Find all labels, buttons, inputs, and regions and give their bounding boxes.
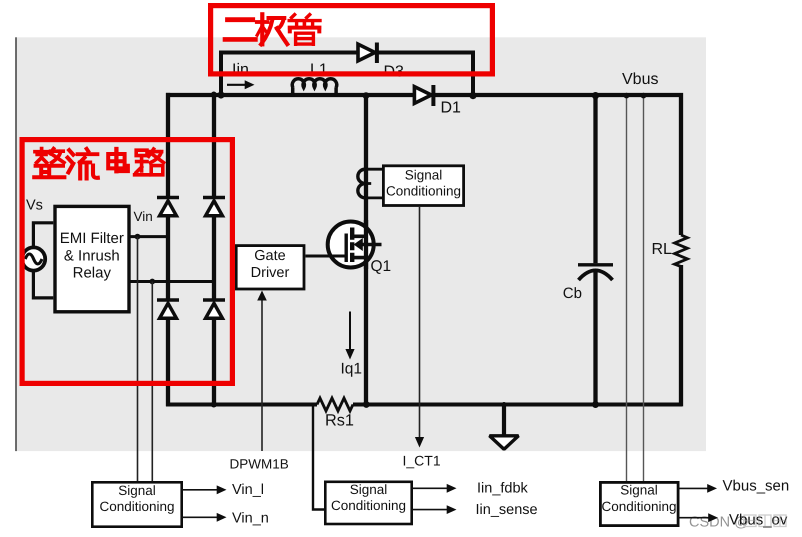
resistor RL: [675, 235, 688, 267]
wire: Cb branch upper: [593, 95, 597, 263]
svg-text:Driver: Driver: [251, 265, 290, 281]
wire: diode bypass riser and left run: [221, 53, 357, 97]
panel left edge line: [15, 37, 17, 451]
diode bridge D-bot-right: [203, 300, 225, 318]
svg-text:Conditioning: Conditioning: [331, 498, 406, 513]
wire: bridge column 1: [166, 93, 170, 406]
svg-text:Gate: Gate: [254, 248, 285, 264]
arrow Vbus_ov: [678, 512, 788, 529]
node: Cb bottom: [592, 401, 599, 408]
wire: Vbus sense line a: [626, 95, 628, 481]
wire: diode bypass right run down to rail: [377, 53, 473, 97]
signal conditioning box (CT): [383, 166, 463, 206]
svg-text:Rs1: Rs1: [325, 412, 354, 430]
wire: gate trace: [306, 255, 347, 258]
arrow Iin_fdbk: [412, 481, 529, 497]
node: Vin sense tap: [135, 234, 141, 240]
arrow Vbus_sen: [678, 478, 789, 495]
node: bridge leg2 bottom: [211, 402, 217, 408]
node: Vbus sense b top: [641, 93, 647, 99]
node: bypass return junction: [469, 92, 476, 99]
arrow Vin_n: [182, 510, 269, 526]
char 整: [34, 149, 64, 178]
diode bridge D-top-left: [157, 198, 179, 216]
wire: Vs source loop: [33, 223, 53, 298]
signal conditioning box (Vin): [92, 482, 181, 526]
svg-text:Iin_fdbk: Iin_fdbk: [477, 481, 529, 497]
arrow Iin_sense: [412, 502, 538, 518]
svg-text:Iq1: Iq1: [341, 361, 363, 378]
diode D3: [358, 43, 377, 64]
svg-text:Vin: Vin: [134, 209, 153, 224]
char 路: [135, 149, 164, 175]
svg-text:Vs: Vs: [26, 198, 43, 214]
wire: bottom rail right of Rs1: [353, 403, 682, 407]
diode D1: [414, 85, 433, 106]
annotation box: rectifier (left red): [22, 140, 232, 384]
node: Q1 branch bottom: [363, 401, 370, 408]
wire: Vbus sense line b: [643, 95, 645, 481]
svg-text:& Inrush: & Inrush: [64, 247, 120, 264]
node: neutral sense tap: [149, 279, 155, 285]
watermark CSDN: [689, 515, 786, 531]
node: ground junction: [502, 402, 507, 407]
gate driver box U2: [236, 246, 304, 289]
signal conditioning box (Iin): [325, 482, 411, 524]
arrow Iq1: [345, 312, 354, 360]
svg-text:Vin_l: Vin_l: [232, 482, 264, 498]
wire: Vin_n sense line down: [151, 282, 153, 482]
diode bridge D-top-right: [203, 198, 225, 216]
svg-text:EMI Filter: EMI Filter: [60, 230, 124, 247]
wire: top rail right segment with RL corner: [433, 95, 681, 235]
EMI filter box: [55, 206, 129, 311]
node: Q1 branch top: [363, 92, 370, 99]
inductor L1: [292, 79, 336, 97]
svg-text:CSDN @: CSDN @: [689, 515, 749, 531]
AC source Vs: [22, 247, 45, 270]
annotation text 整流电路: [34, 149, 163, 179]
svg-text:Conditioning: Conditioning: [386, 184, 461, 199]
current transformer winding: [358, 169, 384, 198]
wire: DPWM1B line with up arrow: [257, 291, 267, 452]
ground: [490, 405, 519, 450]
wire: Rs1 sense L to conditioning: [313, 405, 324, 510]
char 二: [225, 20, 255, 40]
wire: RL branch lower: [679, 265, 683, 406]
svg-text:Iin_sense: Iin_sense: [476, 502, 538, 518]
svg-text:Cb: Cb: [563, 285, 582, 302]
capacitor Cb: [578, 265, 613, 280]
svg-text:Conditioning: Conditioning: [601, 499, 676, 514]
svg-text:Vin_n: Vin_n: [232, 510, 269, 526]
annotation box: diode (top red): [211, 6, 493, 74]
svg-text:Signal: Signal: [118, 483, 156, 498]
resistor Rs1: [317, 398, 353, 411]
wire: Vin_l sense line down: [137, 237, 139, 481]
char 流: [68, 149, 98, 179]
char 极: [257, 14, 287, 44]
wire: Q1 branch vertical: [364, 95, 368, 405]
wire: top rail left segment: [166, 93, 414, 97]
svg-text:DPWM1B: DPWM1B: [230, 457, 289, 472]
MOSFET Q1: [328, 220, 382, 269]
svg-text:Signal: Signal: [620, 483, 658, 498]
wire: I_CT1 line with down arrow: [415, 207, 424, 448]
diode bridge D-bot-left: [157, 300, 179, 318]
svg-text:Vbus_sen: Vbus_sen: [723, 478, 790, 495]
char 管: [289, 15, 320, 45]
wire: bridge column 2: [212, 93, 216, 406]
wire: EMI output to bridge leg2: [130, 280, 214, 283]
signal conditioning box (Vbus): [600, 482, 678, 525]
circuit background panel: [16, 37, 707, 451]
arrow Vin_l: [182, 482, 264, 498]
svg-text:Relay: Relay: [73, 265, 112, 282]
svg-text:D1: D1: [441, 100, 462, 117]
svg-text:I_CT1: I_CT1: [403, 453, 441, 469]
node: Vbus sense a top: [624, 93, 630, 99]
svg-text:RL: RL: [652, 241, 673, 258]
svg-text:Conditioning: Conditioning: [99, 499, 174, 514]
svg-text:Signal: Signal: [350, 482, 388, 497]
arrow Iin: [227, 80, 255, 89]
wire: EMI output to bridge leg1 (Vin): [130, 235, 168, 238]
wire: Cb branch lower: [593, 272, 597, 405]
char 电: [108, 149, 128, 171]
node: bridge leg2 top: [211, 92, 216, 97]
svg-text:Vbus: Vbus: [622, 71, 658, 88]
node: Cb top: [592, 92, 599, 99]
wire: bottom rail left of Rs1: [166, 403, 317, 407]
annotation text 二极管: [225, 14, 320, 44]
svg-text:Q1: Q1: [371, 258, 392, 275]
node: bypass riser junction: [217, 91, 224, 98]
svg-text:Signal: Signal: [405, 167, 443, 182]
